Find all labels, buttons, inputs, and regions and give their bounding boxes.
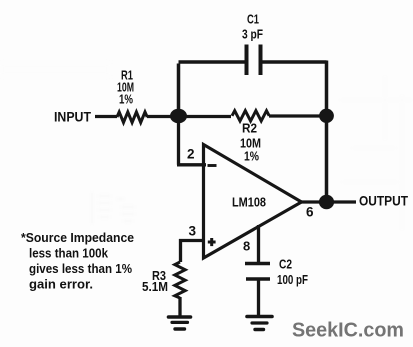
svg-text:LM108: LM108 — [232, 196, 266, 210]
svg-text:less than 100k: less than 100k — [29, 246, 109, 261]
svg-text:1%: 1% — [119, 92, 133, 107]
svg-text:8: 8 — [243, 239, 250, 254]
svg-text:C2: C2 — [279, 257, 292, 272]
svg-text:gives less than 1%: gives less than 1% — [29, 261, 132, 276]
svg-text:*Source Impedance: *Source Impedance — [21, 230, 134, 245]
svg-text:100 pF: 100 pF — [277, 272, 308, 287]
svg-text:3: 3 — [189, 224, 197, 239]
svg-text:2: 2 — [187, 147, 195, 162]
svg-text:1%: 1% — [244, 149, 259, 164]
svg-text:R2: R2 — [242, 121, 257, 136]
svg-text:3 pF: 3 pF — [242, 27, 263, 42]
svg-text:OUTPUT: OUTPUT — [359, 194, 409, 209]
svg-text:INPUT: INPUT — [54, 110, 92, 125]
svg-text:5.1M: 5.1M — [142, 279, 168, 294]
svg-text:SeekIC.com: SeekIC.com — [292, 320, 404, 342]
svg-text:C1: C1 — [247, 12, 259, 27]
svg-text:6: 6 — [306, 205, 314, 220]
svg-text:gain error.: gain error. — [29, 277, 93, 292]
